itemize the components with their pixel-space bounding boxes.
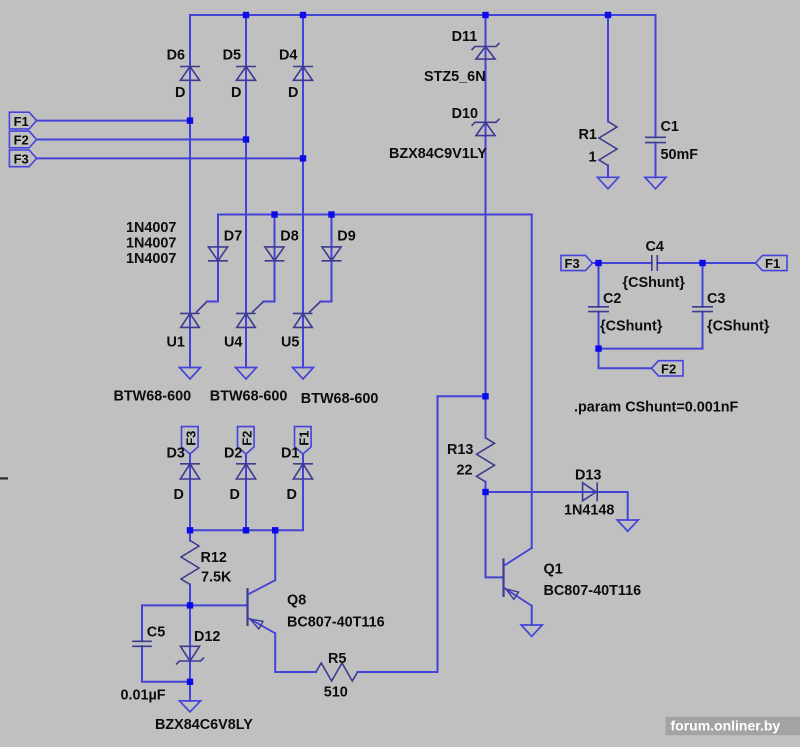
node on top bus at R1 [605,12,611,18]
wire D7 lead and gate of U1 [207,215,218,302]
svg-text:D12: D12 [194,629,220,645]
node F2-D5 [243,136,249,142]
wire D4-U5 column [302,15,304,368]
wire Q8 base row [142,604,248,606]
svg-text:D6: D6 [167,47,185,63]
node gate bus D9 [328,211,334,217]
svg-text:D: D [287,487,297,503]
svg-text:D: D [175,85,185,101]
svg-text:D1: D1 [281,446,299,462]
svg-text:510: 510 [324,685,348,701]
wire C5 loop [142,605,190,681]
resistor R1 [599,121,617,165]
svg-text:C5: C5 [147,625,165,641]
node lower bus D2 [243,527,249,533]
svg-text:U4: U4 [224,335,242,351]
wire C2 branch [598,263,600,349]
svg-text:.param CShunt=0.001nF: .param CShunt=0.001nF [574,400,739,416]
svg-text:{CShunt}: {CShunt} [600,319,663,335]
svg-text:D11: D11 [452,29,478,45]
wire R1 bottom lead [607,165,609,177]
ground under D12 [180,701,201,712]
diode D6 [180,67,200,81]
wire R13 leads [485,396,487,492]
wire F3 row [37,157,303,159]
svg-text:F3: F3 [183,431,198,446]
node R12 bottom [187,602,193,608]
diode D9 [322,247,342,261]
ground under C1 [645,177,666,189]
wire C1 top lead [655,15,657,137]
diode D2 [236,464,256,479]
svg-text:D: D [288,85,298,101]
svg-text:D: D [174,487,184,503]
svg-text:C1: C1 [661,119,679,135]
node on top bus at D11 [482,12,488,18]
svg-text:22: 22 [457,463,473,479]
diode D7 [208,247,228,261]
flag F1 shunt net [756,255,788,270]
ground under U5 [293,368,314,380]
diode D4 [293,67,313,81]
wire R1 top lead [607,15,609,121]
node on top bus at D4 [300,12,306,18]
svg-text:BC807-40T116: BC807-40T116 [544,583,642,599]
svg-text:Q1: Q1 [544,562,563,578]
svg-text:forum.onliner.by: forum.onliner.by [671,717,781,733]
svg-text:R12: R12 [201,550,227,566]
diode D1 [293,464,313,479]
node shunt bottom [595,345,601,351]
scrollbar remnant dash [0,477,8,479]
svg-text:C3: C3 [707,291,725,307]
flag F1 above D1 [295,427,312,454]
capacitor C3 [692,307,713,312]
svg-text:D: D [231,85,241,101]
flag F1 left [9,112,36,129]
wire D11-D10 column down to node [485,15,487,396]
node gate bus D8 [271,211,277,217]
wire R5 left leg to Q8 emitter [275,633,316,672]
wire gate bus [218,214,532,216]
thyristor U5 [293,302,321,328]
svg-text:U1: U1 [167,335,185,351]
transistor Q1 [504,548,532,606]
diode D8 [265,247,285,261]
zener diode D12 [176,646,204,664]
svg-text:F1: F1 [765,256,780,271]
svg-text:BTW68-600: BTW68-600 [114,389,192,405]
svg-text:0.01µF: 0.01µF [121,688,166,704]
resistor R13 [477,438,495,482]
svg-text:BTW68-600: BTW68-600 [301,391,379,407]
wire D9 lead and gate of U5 [321,215,332,302]
svg-text:{CShunt}: {CShunt} [623,275,686,291]
svg-text:F1: F1 [14,114,29,129]
svg-text:D8: D8 [280,228,298,244]
zener diode D10 [472,119,500,136]
svg-text:F2: F2 [661,361,676,376]
svg-text:D3: D3 [167,446,185,462]
wire D6-U1 column [189,15,191,368]
diode D5 [236,67,256,81]
thyristor U1 [180,302,207,328]
ground under U1 [180,368,201,380]
node shunt C3 top [699,260,705,266]
wire F1 flag stem through D1 [302,454,304,479]
watermark band [666,717,800,735]
node on top bus at D5 [243,12,249,18]
svg-text:BZX84C6V8LY: BZX84C6V8LY [155,717,253,733]
node F3-D4 [300,155,306,161]
ground under Q1 emitter [521,625,542,636]
svg-text:F2: F2 [14,133,29,148]
wire top bus [190,14,656,16]
diode D13 [583,482,598,501]
svg-text:1N4007: 1N4007 [126,251,176,267]
resistor R5 [316,663,358,681]
svg-text:BZX84C9V1LY: BZX84C9V1LY [389,146,487,162]
flag F2 left [9,131,36,148]
capacitor C1 [645,137,666,142]
node R13 bottom [482,489,488,495]
svg-text:C4: C4 [646,239,664,255]
wire F1 row [37,120,190,122]
wire D13 row and ground drop [486,492,628,520]
svg-text:{CShunt}: {CShunt} [707,319,770,335]
wire Q1 emitter to ground [531,606,533,625]
svg-text:R5: R5 [328,651,346,667]
wire C1 bottom lead [655,143,657,178]
wire F2 row [37,139,246,141]
svg-text:F2: F2 [239,431,254,446]
wire F3 right net top [592,262,756,264]
node D12 anode [187,679,193,685]
svg-text:D4: D4 [279,47,297,63]
wire lower flag bus [190,479,303,530]
ground after D13 [617,520,638,531]
thyristor U4 [236,302,264,328]
wire F3 flag stem through D3 [189,454,191,530]
zener diode D11 [472,43,500,59]
svg-text:D5: D5 [223,47,241,63]
flag F3 left [9,150,36,167]
flag F2 above D2 [238,427,255,454]
wire C3 branch [702,263,704,349]
svg-text:R1: R1 [579,127,597,143]
wire bottom of shunt net [599,348,703,350]
svg-text:D2: D2 [224,446,242,462]
node R13 top [482,393,488,399]
capacitor C4 [652,255,658,271]
svg-text:1N4007: 1N4007 [126,220,176,236]
svg-text:Q8: Q8 [287,593,306,609]
svg-text:D13: D13 [575,468,601,484]
svg-text:D7: D7 [224,228,242,244]
svg-text:F3: F3 [565,256,580,271]
ground under U4 [236,368,257,380]
capacitor C2 [588,307,609,312]
wire Q1 base [486,492,504,577]
flag F3 shunt net [561,255,593,270]
svg-text:1: 1 [589,150,597,166]
svg-text:7.5K: 7.5K [201,570,232,586]
wire D12 column to ground [189,605,191,701]
wire Q8 collector riser [274,530,276,580]
svg-text:1N4007: 1N4007 [126,235,176,251]
svg-text:STZ5_6N: STZ5_6N [424,69,486,85]
svg-text:R13: R13 [447,442,473,458]
diode D3 [180,464,200,479]
flag F3 above D3 [182,427,199,454]
wire gate bus down to Q1 collector [531,215,533,549]
flag F2 shunt net [652,361,684,376]
wire R12 leads [189,530,191,605]
wire F2 drop [599,349,652,369]
wire D5-U4 column [245,15,247,368]
svg-text:BC807-40T116: BC807-40T116 [287,615,385,631]
resistor R12 [181,541,199,585]
svg-text:D9: D9 [337,228,355,244]
node lower bus Q8 collector [272,527,278,533]
wire F2 flag stem through D2 [245,454,247,530]
svg-text:F3: F3 [14,152,29,167]
wire node to R5 right leg [358,396,486,672]
svg-text:1N4148: 1N4148 [564,503,614,519]
svg-text:50mF: 50mF [661,147,699,163]
svg-text:D10: D10 [452,106,478,122]
svg-text:BTW68-600: BTW68-600 [210,389,288,405]
node shunt F3 [595,260,601,266]
node lower bus D3 [187,527,193,533]
node F1-D6 [187,117,193,123]
transistor Q8 [248,580,276,633]
svg-text:D: D [230,487,240,503]
svg-text:C2: C2 [603,291,621,307]
svg-text:F1: F1 [296,431,311,446]
svg-text:U5: U5 [281,335,299,351]
ground under R1 [598,177,619,189]
capacitor C5 [132,641,152,646]
wire D8 lead and gate of U4 [264,215,275,302]
